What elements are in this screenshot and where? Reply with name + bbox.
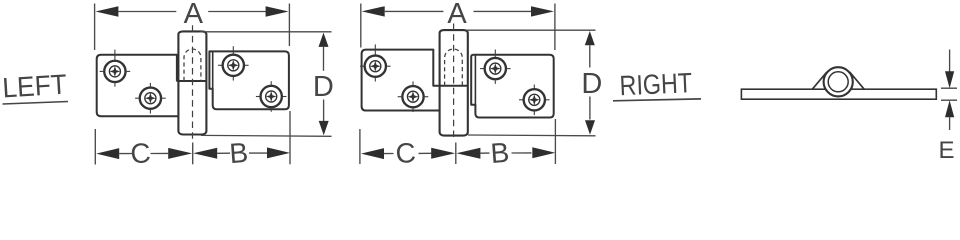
dim B (right hinge) extension line right bbox=[554, 119, 556, 164]
screw head inner circle (150.4,98.2) bbox=[145, 93, 156, 104]
dim A (left hinge) line right segment bbox=[208, 11, 266, 13]
dim C (left hinge) line right segment bbox=[151, 152, 169, 154]
dim B (left hinge) line left segment bbox=[217, 152, 230, 154]
left hinge: right leaf plate bbox=[209, 51, 289, 109]
screw head inner circle (233.3,65.3) bbox=[228, 60, 239, 71]
svg-text:A: A bbox=[184, 0, 204, 30]
dim D (left hinge) line lower segment bbox=[323, 100, 325, 122]
screw head inner circle (413.0,96.7) bbox=[407, 91, 418, 102]
left hinge: right leaf fold line bbox=[212, 51, 214, 88]
phillips recess star (233.3,65.3) bbox=[228, 60, 239, 71]
screw head inner circle (495.3,68.6) bbox=[490, 63, 501, 74]
dim A (right hinge) extension line left bbox=[360, 4, 362, 48]
phillips recess star (534.3,99.8) bbox=[529, 94, 540, 105]
label LEFT bbox=[1, 69, 68, 104]
svg-text:D: D bbox=[581, 68, 602, 100]
phillips recess star (150.4,98.2) bbox=[145, 93, 156, 104]
svg-text:E: E bbox=[938, 137, 954, 164]
screw head outer circle (114.9,71.4) bbox=[104, 61, 125, 82]
right hinge: barrel joint line bbox=[440, 85, 468, 87]
dim A (left hinge) arrow left bbox=[95, 6, 118, 16]
screw centerline ticks (375.3,66.2) bbox=[360, 44, 391, 81]
dim E arrow up bbox=[945, 100, 954, 117]
left hinge: center extension line between C and B bbox=[192, 143, 194, 165]
svg-text:D: D bbox=[313, 71, 334, 103]
dim A (right hinge) extension line right bbox=[554, 4, 556, 51]
dim B (left hinge) extension line right bbox=[289, 111, 291, 164]
dim A (left hinge) extension line left bbox=[94, 4, 96, 51]
side view: leaf plate bar bbox=[741, 89, 936, 99]
dim E tick bottom bbox=[941, 99, 957, 101]
screw head outer circle (495.3,68.6) bbox=[485, 58, 506, 79]
screw centerline ticks (413.0,96.7) bbox=[398, 81, 429, 112]
screw centerline ticks (534.3,99.8) bbox=[519, 85, 550, 116]
dim B (right hinge) arrow left (from centerline) bbox=[456, 148, 480, 159]
dim A (right hinge) line left segment bbox=[385, 10, 444, 12]
dim E stub line top bbox=[949, 50, 951, 72]
right hinge: right leaf plate bbox=[471, 55, 554, 118]
svg-text:A: A bbox=[447, 0, 467, 30]
phillips recess star (495.3,68.6) bbox=[490, 63, 501, 74]
label RIGHT bbox=[613, 67, 701, 101]
phillips recess star (271.2,96.5) bbox=[266, 91, 277, 102]
dim A (left hinge) arrow right bbox=[266, 6, 289, 16]
screw head outer circle (233.3,65.3) bbox=[223, 55, 244, 76]
svg-text:RIGHT: RIGHT bbox=[619, 67, 693, 101]
screw centerline ticks (114.9,71.4) bbox=[100, 50, 131, 87]
dim A (left hinge) extension line right bbox=[288, 4, 290, 47]
screw head inner circle (271.2,96.5) bbox=[266, 91, 277, 102]
right hinge: barrel centerline (dashed) bbox=[453, 24, 455, 140]
dim B (left hinge) line right segment bbox=[249, 152, 268, 154]
screw head outer circle (534.3,99.8) bbox=[524, 89, 545, 110]
dim C (right hinge) line right segment bbox=[419, 152, 432, 154]
svg-text:B: B bbox=[490, 137, 511, 166]
dim B (left hinge) arrow right bbox=[267, 147, 290, 158]
left hinge: barrel joint line bbox=[178, 80, 206, 82]
dim E stub line bottom bbox=[949, 117, 951, 130]
dim C (right hinge) extension line left bbox=[359, 129, 361, 164]
left hinge: left leaf plate bbox=[97, 55, 179, 116]
svg-text:B: B bbox=[228, 137, 249, 166]
dim D (left hinge) line upper segment bbox=[323, 47, 325, 71]
dim C (right hinge) line left segment bbox=[384, 153, 394, 155]
dim A (right hinge) arrow right bbox=[531, 6, 554, 16]
screw head inner circle (375.3,66.2) bbox=[370, 61, 381, 72]
dim D (right hinge) arrow up bbox=[585, 31, 595, 45]
dim D (left hinge) arrow up bbox=[319, 33, 329, 47]
dim B (right hinge) line left segment bbox=[480, 152, 489, 154]
svg-text:LEFT: LEFT bbox=[1, 69, 67, 104]
dim D (right hinge) extension line bottom bbox=[468, 134, 596, 137]
phillips recess star (375.3,66.2) bbox=[370, 61, 381, 72]
screw centerline ticks (271.2,96.5) bbox=[256, 81, 287, 112]
dim E tick top bbox=[941, 87, 957, 89]
right hinge: pin barrel bbox=[440, 30, 468, 136]
dim A (left hinge) line left segment bbox=[118, 11, 176, 13]
dim D (right hinge) line upper segment bbox=[589, 45, 591, 67]
screw head inner circle (534.3,99.8) bbox=[529, 94, 540, 105]
dim C (left hinge) extension line left bbox=[94, 129, 96, 165]
dim D (right hinge) arrow down bbox=[585, 120, 595, 134]
screw centerline ticks (150.4,98.2) bbox=[135, 83, 166, 114]
side view: knuckle inner circle (pin) bbox=[828, 72, 848, 92]
side view: knuckle bump right slant bbox=[850, 72, 865, 90]
screw head outer circle (413.0,96.7) bbox=[402, 86, 423, 107]
screw head outer circle (271.2,96.5) bbox=[261, 86, 282, 107]
dim B (right hinge) line right segment bbox=[512, 152, 532, 154]
screw head inner circle (114.9,71.4) bbox=[109, 66, 120, 77]
right hinge: left leaf plate bbox=[362, 50, 440, 111]
dim A (right hinge) line right segment bbox=[474, 10, 533, 12]
dim C (right hinge) arrow left bbox=[361, 148, 384, 159]
left hinge: pin barrel bbox=[178, 31, 206, 134]
screw head outer circle (375.3,66.2) bbox=[365, 56, 386, 77]
side view: knuckle bump left slant bbox=[812, 72, 827, 90]
dim D (right hinge) extension line top bbox=[466, 29, 596, 31]
dim D (left hinge) extension line top bbox=[200, 31, 332, 33]
phillips recess star (413.0,96.7) bbox=[408, 91, 419, 102]
screw centerline ticks (495.3,68.6) bbox=[480, 50, 511, 84]
dim D (left hinge) extension line bottom bbox=[201, 134, 332, 137]
dim E arrow down bbox=[945, 71, 954, 88]
dim C (left hinge) line left segment bbox=[119, 153, 132, 155]
phillips recess star (114.9,71.4) bbox=[110, 66, 121, 77]
screw centerline ticks (233.3,65.3) bbox=[218, 46, 249, 80]
dim C (left hinge) arrow left bbox=[96, 148, 119, 159]
right hinge: right leaf fold line bbox=[474, 55, 476, 105]
dim D (left hinge) arrow down bbox=[319, 121, 329, 135]
dim B (left hinge) arrow left (from centerline) bbox=[193, 148, 217, 159]
dim A (right hinge) arrow left bbox=[362, 6, 385, 16]
left hinge: barrel centerline (dashed) bbox=[192, 25, 194, 141]
dim B (right hinge) arrow right bbox=[532, 147, 555, 158]
dim C (right hinge) arrow right (to centerline) bbox=[431, 148, 455, 159]
right hinge: hidden pin hole (dashed arch) bbox=[445, 49, 463, 86]
dim D (right hinge) line lower segment bbox=[589, 97, 591, 120]
dim C (left hinge) arrow right (to centerline) bbox=[168, 148, 192, 159]
svg-text:C: C bbox=[129, 137, 151, 166]
side view: knuckle outer circle bbox=[824, 67, 853, 96]
left hinge: hidden pin hole (dashed arch) bbox=[184, 49, 201, 81]
right hinge: center extension line between C and B bbox=[455, 143, 457, 165]
screw head outer circle (150.4,98.2) bbox=[140, 88, 161, 109]
svg-text:C: C bbox=[395, 137, 417, 166]
